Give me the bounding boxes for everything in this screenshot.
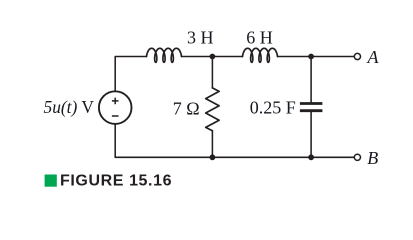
terminal B open circle [354,154,360,160]
svg-text:FIGURE 15.16: FIGURE 15.16 [60,173,172,190]
svg-text:B: B [367,148,378,168]
inductor L1 3H coil [147,48,182,62]
voltage source plus sign [112,98,119,105]
svg-text:7 Ω: 7 Ω [173,99,200,119]
svg-text:6 H: 6 H [246,28,272,48]
voltage source VS circle [99,91,132,124]
wire bottom segment to terminal B [115,156,354,158]
svg-text:3 H: 3 H [187,28,214,48]
node junction dot top of capacitor [308,54,314,60]
node junction dot top of resistor [210,54,216,60]
node junction dot bottom of resistor [210,154,216,160]
capacitor C1 bottom plate [300,109,323,112]
resistor R1 top lead [211,57,213,88]
wire top right segment to terminal A [278,56,355,58]
resistor R1 bottom lead [211,131,213,158]
voltage source minus sign [112,115,119,117]
svg-text:A: A [367,47,380,67]
wire left bottom segment [114,124,116,157]
capacitor C1 bottom lead [310,112,312,157]
terminal A open circle [354,53,360,59]
node junction dot bottom of capacitor [308,154,314,160]
svg-text:0.25 F: 0.25 F [250,98,296,118]
figure marker green square [45,175,57,187]
inductor L2 6H coil [243,48,278,62]
wire top middle segment [182,56,243,58]
capacitor C1 top plate [300,102,323,105]
svg-text:5u(t) V: 5u(t) V [44,97,95,117]
capacitor C1 top lead [310,57,312,103]
wire top-left segment [115,57,146,92]
resistor R1 zigzag body [206,88,219,131]
